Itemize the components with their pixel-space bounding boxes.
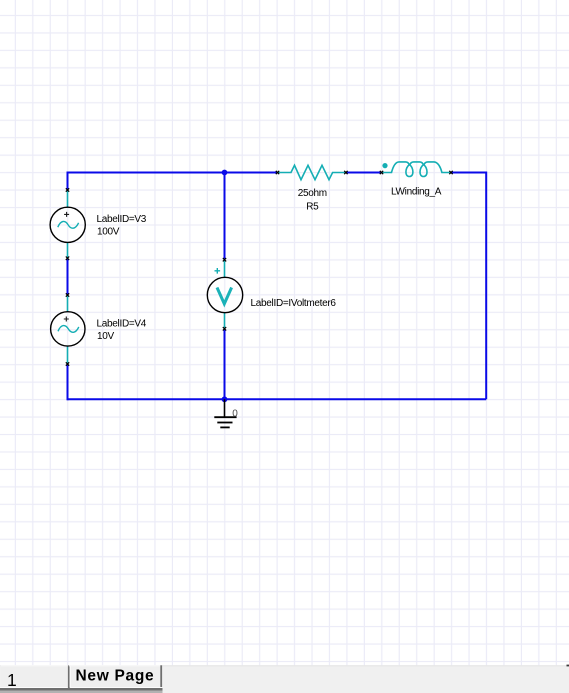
wire top: left corner to node A <box>68 173 225 191</box>
wire left: V3 bottom lead to V4 top <box>67 258 69 295</box>
pin marker V4 bottom <box>66 362 69 365</box>
ac source V3 <box>50 190 85 258</box>
pin marker V4 top <box>66 293 69 296</box>
ground symbol node 0 <box>214 399 236 427</box>
pin marker R5 right <box>344 171 347 174</box>
node A junction dot <box>222 170 228 176</box>
pin marker inductor right <box>449 171 452 174</box>
inductor LWinding_A <box>382 162 452 177</box>
label LabelID=V3 <box>97 214 147 225</box>
svg-text:10V: 10V <box>97 331 115 342</box>
label 25ohm <box>298 188 327 199</box>
pin marker R5 left <box>276 171 279 174</box>
wire top: resistor R5 right terminal to inductor left terminal <box>346 172 382 174</box>
pin marker voltmeter bottom <box>223 327 226 330</box>
wire left: V4 bottom lead to bottom-left corner <box>67 364 69 400</box>
svg-text:1: 1 <box>7 670 17 690</box>
page tab New Page <box>69 665 162 687</box>
svg-text:R5: R5 <box>306 202 319 213</box>
tab bar background <box>0 665 569 693</box>
pin marker inductor left <box>380 171 383 174</box>
svg-text:LabelID=V3: LabelID=V3 <box>97 214 147 225</box>
page tab 1 (active) <box>1 665 70 690</box>
voltmeter U1 IVoltmeter6 <box>207 260 242 329</box>
svg-text:LWinding_A: LWinding_A <box>391 187 442 198</box>
ac source V4 <box>51 295 85 364</box>
svg-text:100V: 100V <box>97 226 120 237</box>
svg-text:LabelID=IVoltmeter6: LabelID=IVoltmeter6 <box>251 298 337 309</box>
label 10V <box>97 331 115 342</box>
wire top: node A to resistor R5 left terminal <box>225 172 278 174</box>
wire top-right: inductor right terminal to right corner <box>451 173 486 400</box>
label 0 (ground net) <box>232 409 238 420</box>
svg-text:LabelID=V4: LabelID=V4 <box>97 318 147 329</box>
pin marker V3 bottom <box>66 257 69 260</box>
svg-text:25ohm: 25ohm <box>298 188 327 199</box>
pin marker V3 top <box>66 188 69 191</box>
label 100V <box>97 226 120 237</box>
node B junction dot <box>222 396 228 402</box>
wire middle: voltmeter bottom to node B <box>224 329 226 400</box>
wire bottom: left corner to right corner <box>68 398 487 400</box>
label R5 <box>306 202 319 213</box>
wire middle: node A down to voltmeter top <box>224 173 226 260</box>
resistor R5 <box>278 165 346 179</box>
label LabelID=V4 <box>97 318 147 329</box>
resize grip mark top-right of tab bar <box>567 665 569 667</box>
label LWinding_A <box>391 187 442 198</box>
label LabelID=IVoltmeter6 <box>251 298 337 309</box>
tab shadow under tabs <box>0 687 163 693</box>
svg-text:New Page: New Page <box>76 668 155 685</box>
svg-text:0: 0 <box>232 409 238 420</box>
pin marker voltmeter top <box>223 258 226 261</box>
